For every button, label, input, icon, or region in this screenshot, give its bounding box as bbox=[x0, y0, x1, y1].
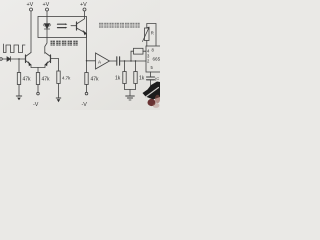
svg-text:47k: 47k bbox=[42, 77, 51, 83]
wire +V middle down to LED bbox=[46, 11, 48, 22]
dark artifact blob (bottom-right) bbox=[143, 82, 161, 108]
ground (bias network) bbox=[126, 96, 135, 100]
-V terminal (right) bbox=[82, 92, 88, 108]
wire R4 to -V terminal bbox=[86, 85, 88, 93]
wire IC bottom pin to C2 bbox=[150, 72, 152, 77]
transistor Q1 bbox=[26, 53, 39, 68]
node junction R5 bbox=[124, 60, 125, 61]
wire down to R5 bbox=[124, 61, 126, 72]
resistor R4 47k (emitter load) bbox=[85, 73, 99, 85]
resistor R1 47k bbox=[17, 73, 31, 85]
node junction R6 bbox=[135, 60, 136, 61]
label: output DC level adjust (Chinese blob text) bbox=[99, 23, 140, 28]
wire +V left down to Q1 collector bbox=[30, 11, 32, 53]
junction phototransistor emitter to op-amp bbox=[86, 60, 87, 61]
resistor R3 47k (emitter) bbox=[36, 73, 50, 85]
feedback resistor R7 to IC pin 4 bbox=[131, 48, 146, 61]
signal wire capacitor to IC bbox=[120, 60, 146, 62]
svg-text:+V: +V bbox=[80, 2, 87, 8]
svg-text:-V: -V bbox=[33, 102, 39, 108]
svg-text:4.7k: 4.7k bbox=[62, 76, 71, 81]
op-amp U1 bbox=[96, 53, 110, 69]
node junction feedback bbox=[130, 60, 131, 61]
ground (middle, arrow style) bbox=[56, 98, 61, 102]
potentiometer RP (output DC level adjust) bbox=[143, 24, 157, 47]
label: light-tight enclosure (Chinese blob text) bbox=[51, 41, 78, 46]
light-tight enclosure box bbox=[38, 17, 87, 38]
ground (left) bbox=[16, 96, 21, 100]
svg-text:47k: 47k bbox=[91, 77, 100, 83]
svg-text:+V: +V bbox=[43, 2, 50, 8]
svg-text:1k: 1k bbox=[115, 76, 121, 82]
+V supply terminal (middle, to LED anode) bbox=[43, 2, 50, 11]
resistor R5 1k bbox=[115, 72, 126, 84]
common emitter node down to R3 bbox=[37, 68, 39, 73]
IC U2 665 bbox=[146, 46, 163, 72]
wire op-amp output to capacitor bbox=[110, 60, 117, 62]
wire Q2 base to bias resistor bbox=[51, 59, 59, 72]
input terminal bbox=[0, 58, 2, 61]
junction to R1 bbox=[18, 58, 19, 59]
wire LED cathode to Q2 collector bbox=[45, 38, 47, 53]
wire to op-amp input bbox=[87, 60, 96, 62]
wire down to R6 bbox=[135, 61, 137, 72]
input wire bbox=[2, 58, 7, 60]
wire R2 to ground bbox=[58, 84, 60, 98]
svg-text:A: A bbox=[98, 60, 101, 65]
svg-text:R: R bbox=[151, 31, 154, 36]
wire down to R1 bbox=[18, 59, 20, 73]
-V terminal (left) bbox=[33, 92, 39, 108]
capacitor C2 bbox=[147, 76, 160, 88]
svg-text:47k: 47k bbox=[23, 77, 32, 83]
wire R1 to ground bbox=[18, 85, 20, 96]
input square-wave symbol bbox=[4, 44, 26, 53]
light coupling arrows bbox=[58, 23, 76, 28]
wires R5,R6 bottoms joined to ground bbox=[125, 84, 136, 90]
resistor R2 4.7k (Q2 base bias) bbox=[57, 71, 71, 84]
+V supply terminal (right, to phototransistor collector) bbox=[80, 2, 87, 11]
phototransistor emitter wire down bbox=[86, 34, 88, 73]
transistor Q2 bbox=[38, 53, 51, 68]
wire R3 to -V terminal bbox=[37, 85, 39, 93]
wire diode to Q1 base bbox=[11, 58, 26, 60]
diode D1 bbox=[7, 57, 11, 62]
svg-text:-V: -V bbox=[82, 102, 88, 108]
phototransistor inside enclosure bbox=[77, 19, 87, 35]
LED D2 inside enclosure bbox=[43, 22, 51, 38]
svg-text:1k: 1k bbox=[139, 76, 145, 82]
svg-text:+V: +V bbox=[27, 2, 34, 8]
wire +V right down into enclosure bbox=[84, 11, 86, 19]
svg-text:665: 665 bbox=[153, 57, 161, 62]
+V supply terminal (left, to Q1 collector) bbox=[27, 2, 34, 11]
resistor R6 1k bbox=[134, 72, 145, 84]
svg-text:(C: (C bbox=[155, 76, 159, 81]
coupling capacitor C1 bbox=[117, 57, 120, 65]
